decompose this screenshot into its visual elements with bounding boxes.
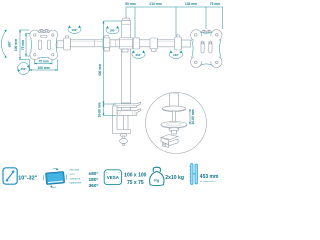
- mouth slot: [41, 35, 48, 37]
- svg-text:±80°: ±80°: [89, 171, 99, 177]
- rotation oval 360 (below arm): [132, 50, 145, 58]
- spec icon weight: [150, 167, 164, 185]
- detail pole: [170, 93, 179, 107]
- detail screw rod: [173, 111, 176, 122]
- svg-text:360°: 360°: [136, 53, 143, 57]
- svg-text:поворота: поворота: [70, 177, 81, 180]
- arm collar tab left: [104, 48, 110, 52]
- arm collar left: [104, 36, 109, 40]
- plate ears rear: [202, 30, 207, 32]
- spec icon monitor: [46, 172, 65, 185]
- clamp top flange: [114, 102, 141, 107]
- spec icon screen size: [3, 168, 17, 184]
- arm joint collar A: [133, 38, 139, 49]
- rotation oval 180 (right elbow): [169, 50, 182, 58]
- plate bottom dimension 100 mm: [30, 60, 58, 72]
- vesa slots: [39, 40, 42, 50]
- spec badge VESA: [104, 170, 121, 185]
- svg-text:2x10 kg: 2x10 kg: [165, 175, 184, 181]
- svg-text:10-80 mm: 10-80 mm: [191, 109, 195, 124]
- svg-text:180°: 180°: [89, 177, 99, 183]
- rotation oval 180 (left elbow): [68, 25, 81, 33]
- arm seam lines: [115, 40, 117, 47]
- arm left bar: [71, 40, 104, 47]
- arm right link: [182, 40, 191, 47]
- plate left dimension 75 mm: [21, 34, 30, 57]
- left VESA plate front view: [30, 29, 58, 60]
- arm left bar 2: [110, 40, 122, 47]
- svg-text:360°: 360°: [89, 183, 99, 189]
- svg-text:VESA: VESA: [107, 175, 120, 180]
- arm right bar 1: [134, 40, 151, 47]
- svg-text:180°: 180°: [72, 28, 79, 32]
- tilt arc ±90: [1, 30, 11, 58]
- plate ears: [39, 29, 45, 32]
- arm collar right: [150, 38, 158, 49]
- detail flange disc: [163, 106, 186, 111]
- arm elbow 1: [66, 36, 69, 39]
- pole: [122, 18, 131, 103]
- clamp screw shaft: [124, 112, 129, 131]
- arm right bar 2: [158, 40, 176, 47]
- vertical dimension 10-80 mm (main view): [98, 102, 117, 117]
- svg-text:10-80 mm: 10-80 mm: [98, 102, 102, 117]
- rotation circle 360: [18, 63, 30, 75]
- svg-text:10"-32": 10"-32": [18, 176, 37, 182]
- vertical dimension 400 mm: [98, 21, 121, 104]
- detail knob: [169, 128, 179, 132]
- svg-text:100 x 100: 100 x 100: [124, 172, 146, 178]
- arm left link: [57, 41, 64, 48]
- svg-text:±90°: ±90°: [8, 40, 12, 47]
- spec icon height: [189, 164, 198, 185]
- svg-text:180°: 180°: [110, 28, 117, 32]
- desk clamp main view: [113, 102, 141, 145]
- plate bottom dimension 75 mm: [35, 60, 53, 65]
- corner holes rear: [195, 34, 198, 37]
- svg-text:135 mm: 135 mm: [185, 2, 197, 6]
- svg-text:75 mm: 75 mm: [210, 2, 221, 6]
- svg-text:Kg: Kg: [154, 178, 160, 182]
- clamp screw and knob: [120, 134, 127, 137]
- svg-text:от поверхности: от поверхности: [200, 181, 216, 183]
- corner holes: [34, 34, 36, 36]
- rear slots: [201, 41, 204, 53]
- detail dimension 10-80 mm: [189, 109, 191, 125]
- clamp C bracket: [113, 106, 131, 134]
- detail circle: [146, 93, 207, 154]
- svg-text:400 mm: 400 mm: [98, 64, 102, 76]
- svg-text:100 mm: 100 mm: [37, 66, 49, 70]
- svg-text:453 mm: 453 mm: [200, 174, 219, 180]
- svg-text:угол: угол: [70, 173, 75, 176]
- arm hub at pole: [120, 38, 133, 50]
- svg-text:180°: 180°: [173, 53, 180, 57]
- svg-text:наклона: наклона: [70, 169, 80, 172]
- svg-text:100 mm: 100 mm: [14, 39, 18, 51]
- top dimension line: [126, 7, 223, 37]
- detail clamp sketch: [161, 135, 178, 140]
- detail lower jaw disc: [161, 122, 187, 128]
- plate left dimension 100 mm: [14, 30, 30, 60]
- clamp upper jaw: [113, 109, 141, 116]
- arm hub tab: [122, 49, 128, 52]
- svg-text:75 mm: 75 mm: [38, 60, 49, 64]
- svg-text:75 x 75: 75 x 75: [127, 180, 144, 186]
- svg-text:210 mm: 210 mm: [149, 2, 161, 6]
- arm elbow 2: [177, 35, 180, 38]
- svg-text:360°: 360°: [21, 67, 28, 71]
- svg-text:вращения: вращения: [70, 182, 82, 185]
- svg-text:50 mm: 50 mm: [125, 2, 136, 6]
- rotation oval 180 (pole): [106, 26, 119, 34]
- spec text rotation words: [70, 169, 82, 185]
- right VESA plate rear view: [191, 30, 222, 68]
- svg-text:75 mm: 75 mm: [21, 40, 25, 51]
- pole through clamp: [122, 103, 131, 110]
